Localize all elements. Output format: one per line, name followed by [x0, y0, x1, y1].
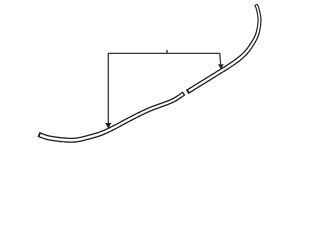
arrowhead pointing to segment A	[105, 123, 111, 129]
arrowhead pointing to segment B	[218, 64, 224, 69]
molding strip segment A (lower-left), double-line outline	[38, 91, 186, 142]
label 1	[166, 50, 167, 54]
molding strip segment B (upper-right, curved hook end), double-line outline	[186, 4, 262, 95]
callout leader bracket for label 1	[108, 53, 220, 123]
